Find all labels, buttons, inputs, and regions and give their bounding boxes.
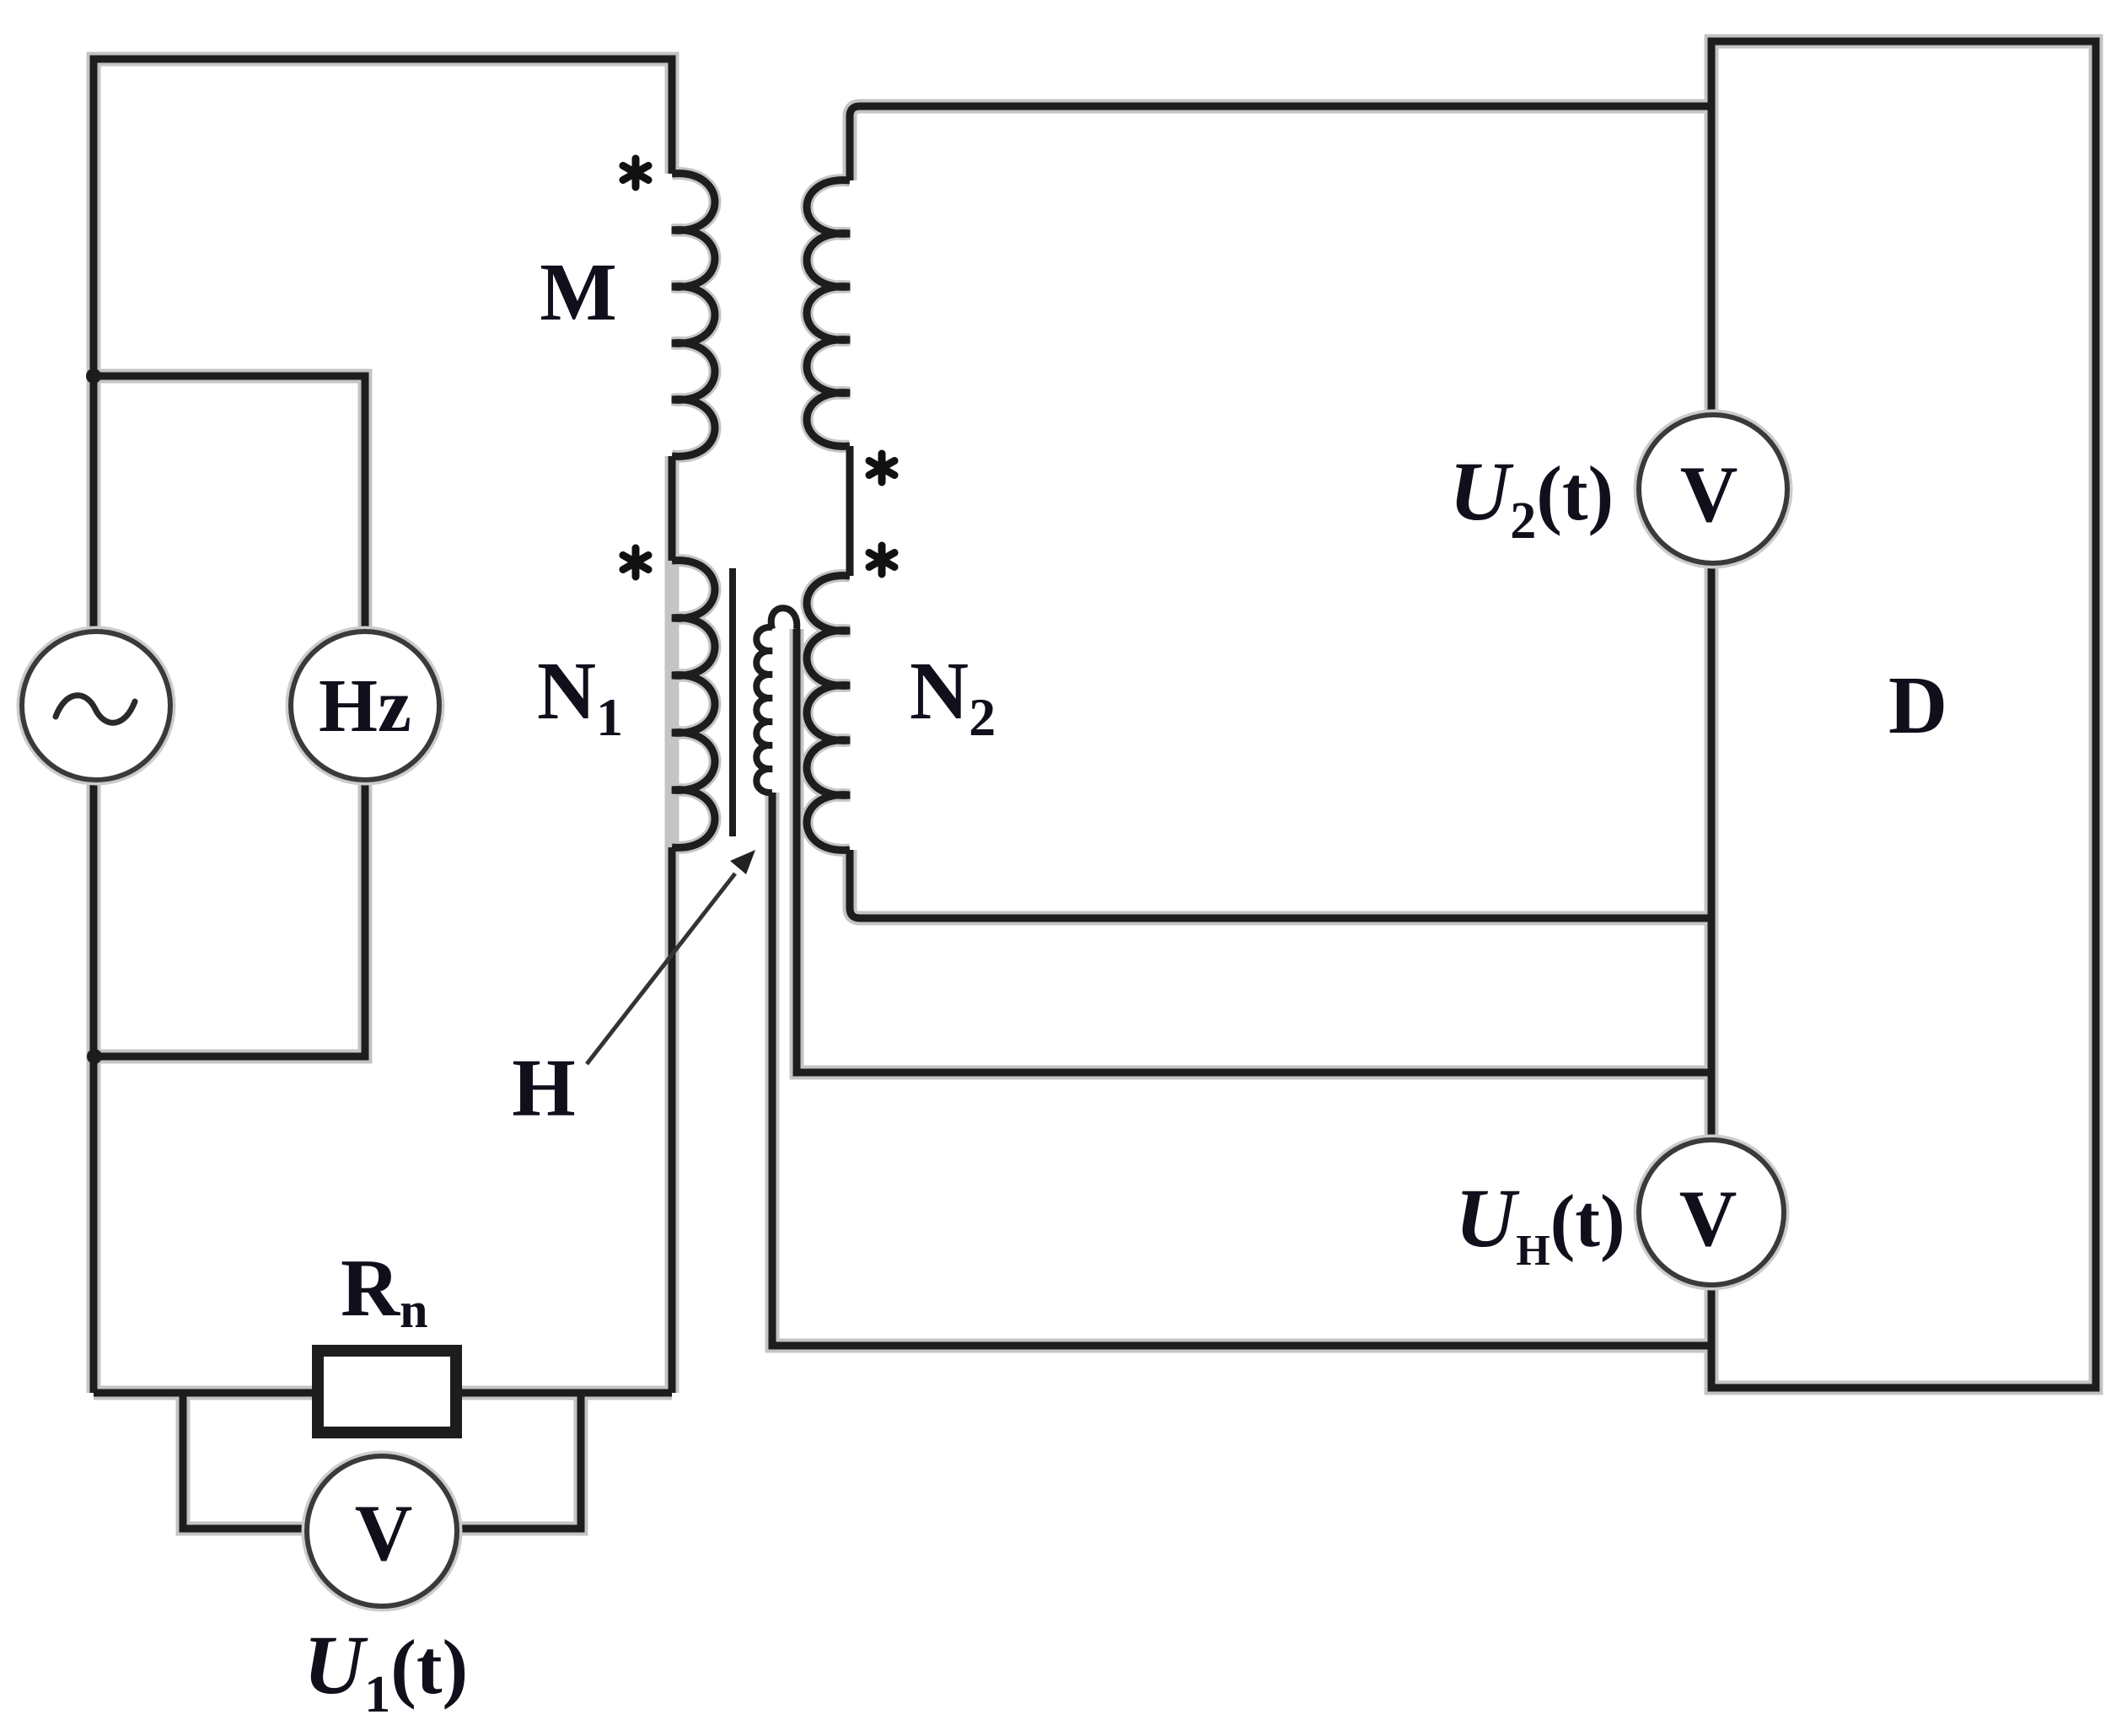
svg-text:V: V [1679, 1174, 1738, 1263]
svg-text:H: H [512, 1043, 575, 1133]
svg-text:V: V [355, 1488, 413, 1577]
svg-text:D: D [1888, 660, 1947, 750]
svg-text:V: V [1680, 449, 1738, 539]
svg-text:Hz: Hz [319, 664, 411, 748]
svg-text:M: M [540, 247, 617, 337]
